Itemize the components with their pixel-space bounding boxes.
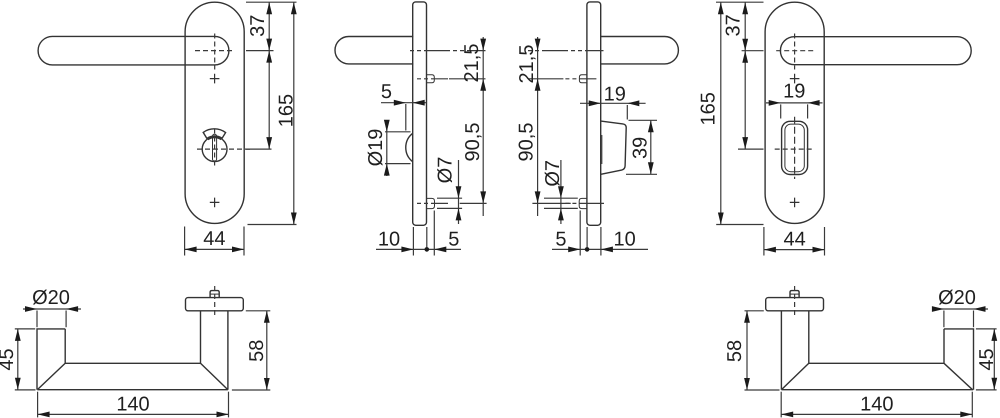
view 4: dimension line 37 and chain — [744, 2, 746, 149]
svg-text:90,5: 90,5 — [516, 123, 538, 162]
handle top view right: spindle centerline — [794, 286, 796, 316]
view 2: top screw axis line — [417, 78, 448, 80]
svg-text:165: 165 — [698, 92, 720, 125]
view 1: extension line plate top — [246, 1, 297, 3]
svg-text:10: 10 — [378, 228, 400, 250]
view 2: bottom screw axis line — [417, 202, 448, 204]
view 4: dimension line 44 — [764, 249, 825, 251]
svg-text:5: 5 — [381, 81, 392, 103]
dimension line 140 left — [38, 413, 229, 415]
view 1: extension line handle axis — [246, 50, 274, 52]
svg-text:45: 45 — [976, 348, 998, 370]
svg-text:58: 58 — [246, 340, 268, 362]
svg-text:19: 19 — [783, 81, 805, 103]
view 4: dimension line 19 — [766, 102, 823, 104]
svg-text:Ø19: Ø19 — [365, 129, 387, 167]
view 4: dimension line 165 — [720, 2, 722, 224]
view 1: WC turn rosette circle — [202, 137, 227, 162]
view 3: screw lug top — [579, 75, 587, 83]
svg-text:37: 37 — [247, 15, 269, 37]
view 1: extension line turn axis — [246, 148, 272, 150]
handle top view left: extension lines grip diameter — [36, 311, 38, 328]
view 1: backplate front view (left) — [185, 2, 244, 223]
view 3: backplate side profile mirrored — [587, 2, 601, 225]
view 1: lever handle grip — [38, 36, 229, 65]
view 4: extension lines width 44 — [763, 227, 765, 256]
extension lines height 45 right — [976, 328, 997, 330]
extension lines height 58 right — [745, 310, 764, 312]
dimension line 58 left — [266, 311, 268, 390]
view 3: thumbturn side profile — [601, 121, 626, 174]
svg-text:10: 10 — [613, 228, 635, 250]
view 1: extension line plate bottom — [248, 224, 297, 226]
svg-text:Ø20: Ø20 — [32, 287, 70, 309]
view 4: extension line plate top — [716, 1, 764, 3]
view 1: dimension line 37 and chain — [268, 2, 270, 149]
view 3: extension lines screw diameter — [544, 197, 578, 199]
svg-text:45: 45 — [0, 348, 18, 370]
svg-text:165: 165 — [276, 94, 298, 127]
handle top view left: outline — [37, 311, 228, 390]
view 2: turn boss bump — [406, 133, 413, 161]
view 4: thumbturn front inner — [785, 124, 804, 172]
view 1: WC turn thumb lever — [213, 134, 217, 161]
view 2: dimension line 10 and 5 bottom — [376, 248, 461, 250]
view 1: dimension line 44 — [185, 248, 244, 250]
view 3: dimension line diameter 7 — [560, 160, 562, 224]
handle top view right: spindle — [790, 291, 799, 298]
view 4: screw mark top — [790, 74, 800, 84]
dimension line diameter 20 left — [23, 308, 81, 310]
view 4: backplate front view (right) — [765, 2, 824, 223]
handle top view left: rose collar — [186, 298, 244, 311]
view 4: lever handle grip — [780, 37, 971, 65]
svg-text:37: 37 — [722, 14, 744, 36]
extension lines length 140 left — [37, 392, 39, 418]
svg-text:19: 19 — [604, 84, 626, 106]
svg-text:58: 58 — [724, 340, 746, 362]
view 2: dimension line diameter 7 — [458, 160, 460, 224]
view 3: top screw axis line — [528, 78, 563, 80]
view 3: extension lines turn length — [629, 119, 658, 121]
view 3: handle grip side view — [600, 37, 678, 64]
dimension line diameter 20 right — [932, 308, 988, 310]
view 3: dimension line 21.5 and 90.5 — [537, 37, 539, 216]
view 1: spindle centerlines — [195, 50, 233, 52]
view 1: WC turn thick slot arc — [207, 137, 221, 139]
view 1: WC turn release flange — [203, 129, 225, 139]
view 2: dimension line 21.5 and 90.5 — [482, 37, 484, 216]
svg-text:44: 44 — [783, 228, 805, 250]
view 3: thumbturn base line — [601, 135, 603, 164]
dimension line 58 right — [746, 311, 748, 390]
view 3: dimension line 19 — [580, 102, 646, 104]
view 1: screw mark bottom — [210, 198, 220, 208]
svg-text:5: 5 — [555, 228, 566, 250]
handle top view right: extension lines grip diameter — [943, 311, 945, 328]
view 4: extension lines turn width — [780, 104, 782, 118]
view 4: extension line plate bottom — [716, 224, 763, 226]
view 3: handle axis centerline — [528, 50, 604, 52]
view 4: turn centerlines — [775, 148, 815, 150]
handle top view right: rose collar — [766, 298, 824, 311]
view 2: dimension line 5 top — [381, 102, 427, 104]
view 2: dimension line diameter 19 — [386, 120, 388, 176]
view 4: extension line turn axis — [738, 148, 764, 150]
view 3: dimension line 39 — [650, 120, 652, 174]
svg-text:21,5: 21,5 — [461, 44, 483, 83]
extension lines height 45 left — [15, 328, 35, 330]
view 4: extension line handle axis — [742, 50, 764, 52]
handle top view left: spindle centerline — [214, 286, 216, 316]
view 4: thumbturn front outer — [782, 121, 808, 174]
svg-text:21,5: 21,5 — [516, 45, 538, 84]
view 3: bottom extension lines — [579, 211, 581, 256]
view 4: spindle centerlines — [776, 50, 814, 52]
handle top view left: spindle — [210, 291, 219, 298]
view 2: extension lines boss diameter — [385, 131, 411, 133]
view 1: extension lines width 44 — [184, 227, 186, 256]
view 2: screw lug top — [427, 75, 435, 83]
view 1: screw mark top — [210, 74, 220, 84]
view 2: handle grip side view — [335, 37, 413, 64]
svg-text:140: 140 — [860, 393, 893, 415]
view 2: extension lines screw diameter — [437, 197, 462, 199]
view 2: bottom extension lines — [412, 227, 414, 256]
svg-text:Ø7: Ø7 — [434, 157, 456, 184]
extension lines height 58 left — [246, 310, 270, 312]
svg-text:39: 39 — [629, 137, 651, 159]
view 2: backplate side profile — [413, 2, 427, 225]
view 3: extension line turn tip — [626, 105, 628, 120]
dimension line 45 right — [993, 329, 995, 390]
view 1: WC turn centerlines — [197, 148, 252, 150]
view 4: screw mark bottom — [790, 198, 800, 208]
view 2: handle axis centerline — [410, 50, 486, 52]
svg-text:Ø20: Ø20 — [938, 287, 976, 309]
svg-text:Ø7: Ø7 — [542, 160, 564, 187]
svg-text:90,5: 90,5 — [462, 123, 484, 162]
extension lines length 140 right — [780, 392, 782, 418]
svg-text:5: 5 — [448, 228, 459, 250]
view 2: screw lug bottom — [427, 198, 435, 208]
svg-text:44: 44 — [203, 228, 225, 250]
svg-text:140: 140 — [116, 393, 149, 415]
view 3: screw lug bottom — [579, 198, 587, 208]
view 3: bottom screw axis line — [532, 202, 570, 204]
handle top view right: outline — [781, 311, 973, 390]
view 1: dimension line 165 — [293, 2, 295, 224]
view 2: extension line boss face — [405, 104, 407, 131]
dimension line 45 left — [17, 329, 19, 390]
dimension line 140 right — [781, 413, 972, 415]
view 3: dimension line 5 and 10 bottom — [552, 248, 648, 250]
